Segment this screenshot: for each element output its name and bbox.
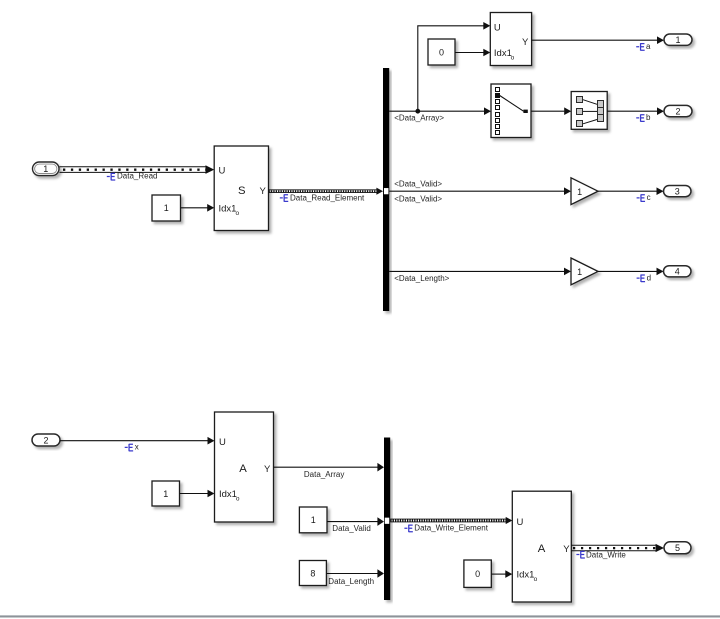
svg-text:a: a (646, 42, 651, 51)
svg-text:<Data_Length>: <Data_Length> (394, 274, 449, 283)
svg-text:1: 1 (311, 515, 316, 525)
outport 3 (664, 186, 692, 197)
wire Data_Write (dotted bus from A2.Y to outport 5) (571, 545, 656, 550)
label Data_Read_Element (280, 193, 365, 202)
svg-text:U: U (219, 166, 226, 177)
gain 1 (c) (571, 178, 598, 205)
svg-text:Y: Y (260, 186, 267, 197)
wire const to A1.Idx1 (180, 493, 209, 495)
wire Data_Read (dotted bus from inport 1 to Selector U) (60, 167, 207, 173)
node junction Data_Array (415, 109, 420, 114)
bus creator bar (384, 438, 390, 601)
selector block S (214, 146, 268, 231)
svg-text:2: 2 (43, 435, 48, 445)
svg-text:<Data_Array>: <Data_Array> (394, 114, 444, 123)
svg-text:Data_Write_Element: Data_Write_Element (414, 524, 488, 533)
bottom border line (0, 615, 720, 617)
svg-text:o: o (236, 210, 240, 217)
svg-text:5: 5 (675, 543, 680, 553)
svg-text:1: 1 (675, 35, 680, 45)
svg-text:0: 0 (439, 47, 444, 57)
outport 4 (664, 266, 692, 277)
svg-text:1: 1 (577, 187, 582, 197)
wire inport2 to A1.U (60, 440, 208, 442)
wire gain to outport 3 (598, 190, 657, 192)
inport 2 (32, 434, 60, 446)
svg-text:o: o (511, 55, 515, 62)
svg-text:2: 2 (675, 106, 680, 116)
svg-text:8: 8 (310, 568, 315, 578)
label Data_Write (576, 550, 626, 559)
label c (637, 193, 651, 202)
svg-text:U: U (517, 517, 524, 528)
constant 1 (A1 index) (152, 481, 180, 506)
svg-text:Idx1: Idx1 (494, 48, 512, 59)
svg-text:o: o (534, 576, 538, 583)
svg-text:<Data_Valid>: <Data_Valid> (394, 179, 442, 188)
selector icon block (index selector) (491, 84, 531, 138)
outport 2 (664, 105, 692, 116)
constant 1 (top) (152, 195, 181, 221)
svg-text:Data_Valid: Data_Valid (332, 524, 371, 533)
svg-text:3: 3 (675, 186, 680, 196)
wire Data_Length const to bus creator (326, 573, 377, 575)
selector block 2 (top) (490, 13, 531, 66)
svg-text:U: U (219, 437, 226, 448)
wire Data_Valid const to bus creator (327, 521, 378, 523)
svg-text:b: b (646, 113, 651, 122)
label a (636, 42, 651, 51)
svg-text:A: A (239, 463, 247, 475)
wire constant0 to selector2 Idx1 (455, 52, 484, 54)
wire Data_Valid (bus to gain 1) (389, 190, 564, 192)
svg-text:Data_Read_Element: Data_Read_Element (290, 193, 365, 202)
svg-text:o: o (236, 496, 240, 503)
label x (125, 443, 139, 452)
vector concatenate block (571, 92, 607, 130)
bus selector bar (383, 68, 389, 311)
svg-text:A: A (538, 543, 546, 555)
label Data_Write_Element (404, 524, 488, 533)
wire selector icon to concat block (531, 110, 564, 112)
svg-text:Y: Y (522, 37, 529, 48)
svg-text:<Data_Valid>: <Data_Valid> (394, 195, 442, 204)
svg-text:Data_Length: Data_Length (328, 577, 374, 586)
wire selector2 Y to outport 1 (532, 39, 658, 41)
wire const0 to A2.Idx1 (491, 573, 506, 575)
svg-text:Data_Write: Data_Write (586, 550, 626, 559)
outport 5 (664, 542, 691, 554)
label b (636, 113, 651, 122)
inport 1 (33, 162, 60, 176)
svg-text:c: c (647, 193, 651, 202)
svg-text:d: d (647, 273, 651, 282)
wire Data_Array branch up to selector2 U (418, 26, 484, 111)
wire gain2 to outport 4 (598, 270, 657, 272)
constant 1 (Data_Valid) (299, 507, 327, 533)
label d (637, 273, 651, 282)
wire Data_Length (bus to gain 2) (389, 270, 564, 272)
assignment block A2 (512, 491, 571, 602)
svg-text:Data_Read: Data_Read (117, 171, 157, 180)
constant 8 (Data_Length) (299, 561, 326, 586)
svg-text:x: x (135, 443, 139, 452)
svg-text:Idx1: Idx1 (219, 203, 237, 214)
svg-text:Y: Y (563, 544, 570, 555)
svg-text:S: S (238, 185, 246, 197)
gain 2 (d) (571, 258, 598, 285)
svg-text:1: 1 (577, 267, 582, 277)
svg-text:Idx1: Idx1 (517, 569, 535, 580)
svg-text:1: 1 (163, 489, 168, 499)
wire A1.Y Data_Array to bus creator (274, 466, 378, 468)
svg-text:Y: Y (264, 464, 271, 475)
wire concat to outport 2 (607, 110, 657, 112)
outport 1 (664, 34, 692, 45)
svg-text:4: 4 (675, 267, 680, 277)
wire Data_Write_Element (bus creator to A2.U) (390, 519, 506, 522)
svg-text:Idx1: Idx1 (219, 489, 237, 500)
wire Data_Read_Element (element bus from S.Y to bus selector) (269, 190, 377, 193)
constant 0 (top) (428, 39, 455, 65)
svg-text:Data_Array: Data_Array (304, 470, 344, 479)
svg-text:1: 1 (164, 203, 169, 213)
svg-text:1: 1 (43, 164, 48, 174)
svg-text:0: 0 (475, 569, 480, 579)
wire Data_Array (bus selector to Selector-icon block) (389, 110, 484, 112)
svg-text:U: U (494, 23, 501, 34)
wire constant1 to Idx1 (181, 207, 209, 209)
constant 0 (A2 index) (464, 560, 491, 587)
assignment block A1 (215, 412, 274, 522)
label Data_Read (107, 171, 158, 180)
